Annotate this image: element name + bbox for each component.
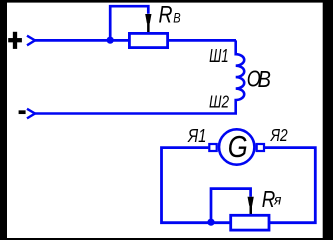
generator brush terminal left xyxy=(209,144,216,151)
wire: resistor Rv to field coil corner xyxy=(168,39,236,42)
minus terminal symbol xyxy=(19,110,26,114)
wiper arrow of Rv xyxy=(145,14,151,33)
svg-text:я: я xyxy=(273,192,281,207)
wire: rheostat Rv wiper bypass xyxy=(110,6,148,40)
field coil OV xyxy=(34,40,244,113)
svg-text:Я2: Я2 xyxy=(270,125,288,145)
plus input chevron xyxy=(27,36,35,46)
wire: armature right loop from brush Ya2 xyxy=(265,148,315,223)
junction node at Rya tap xyxy=(207,219,214,226)
generator armature circle G xyxy=(219,129,254,164)
wire: plus feed to resistor Rv xyxy=(34,39,130,42)
svg-text:Ш2: Ш2 xyxy=(209,92,229,112)
svg-text:В: В xyxy=(173,9,180,25)
minus input chevron xyxy=(27,109,35,119)
wire: armature left loop from brush Ya1 xyxy=(162,148,230,223)
generator brush terminal right xyxy=(257,144,264,151)
resistor Rv body xyxy=(129,33,167,47)
junction node at Rv tap xyxy=(107,37,114,44)
resistor Rya body xyxy=(231,215,269,230)
svg-text:В: В xyxy=(258,66,271,92)
plus terminal symbol xyxy=(8,32,22,49)
svg-text:R: R xyxy=(159,1,173,28)
svg-text:Ш1: Ш1 xyxy=(209,45,229,66)
wire: rheostat Rya wiper bypass xyxy=(211,189,251,222)
wiper arrow of Rya xyxy=(248,197,254,215)
svg-text:G: G xyxy=(228,129,248,164)
svg-text:Я1: Я1 xyxy=(187,126,206,146)
